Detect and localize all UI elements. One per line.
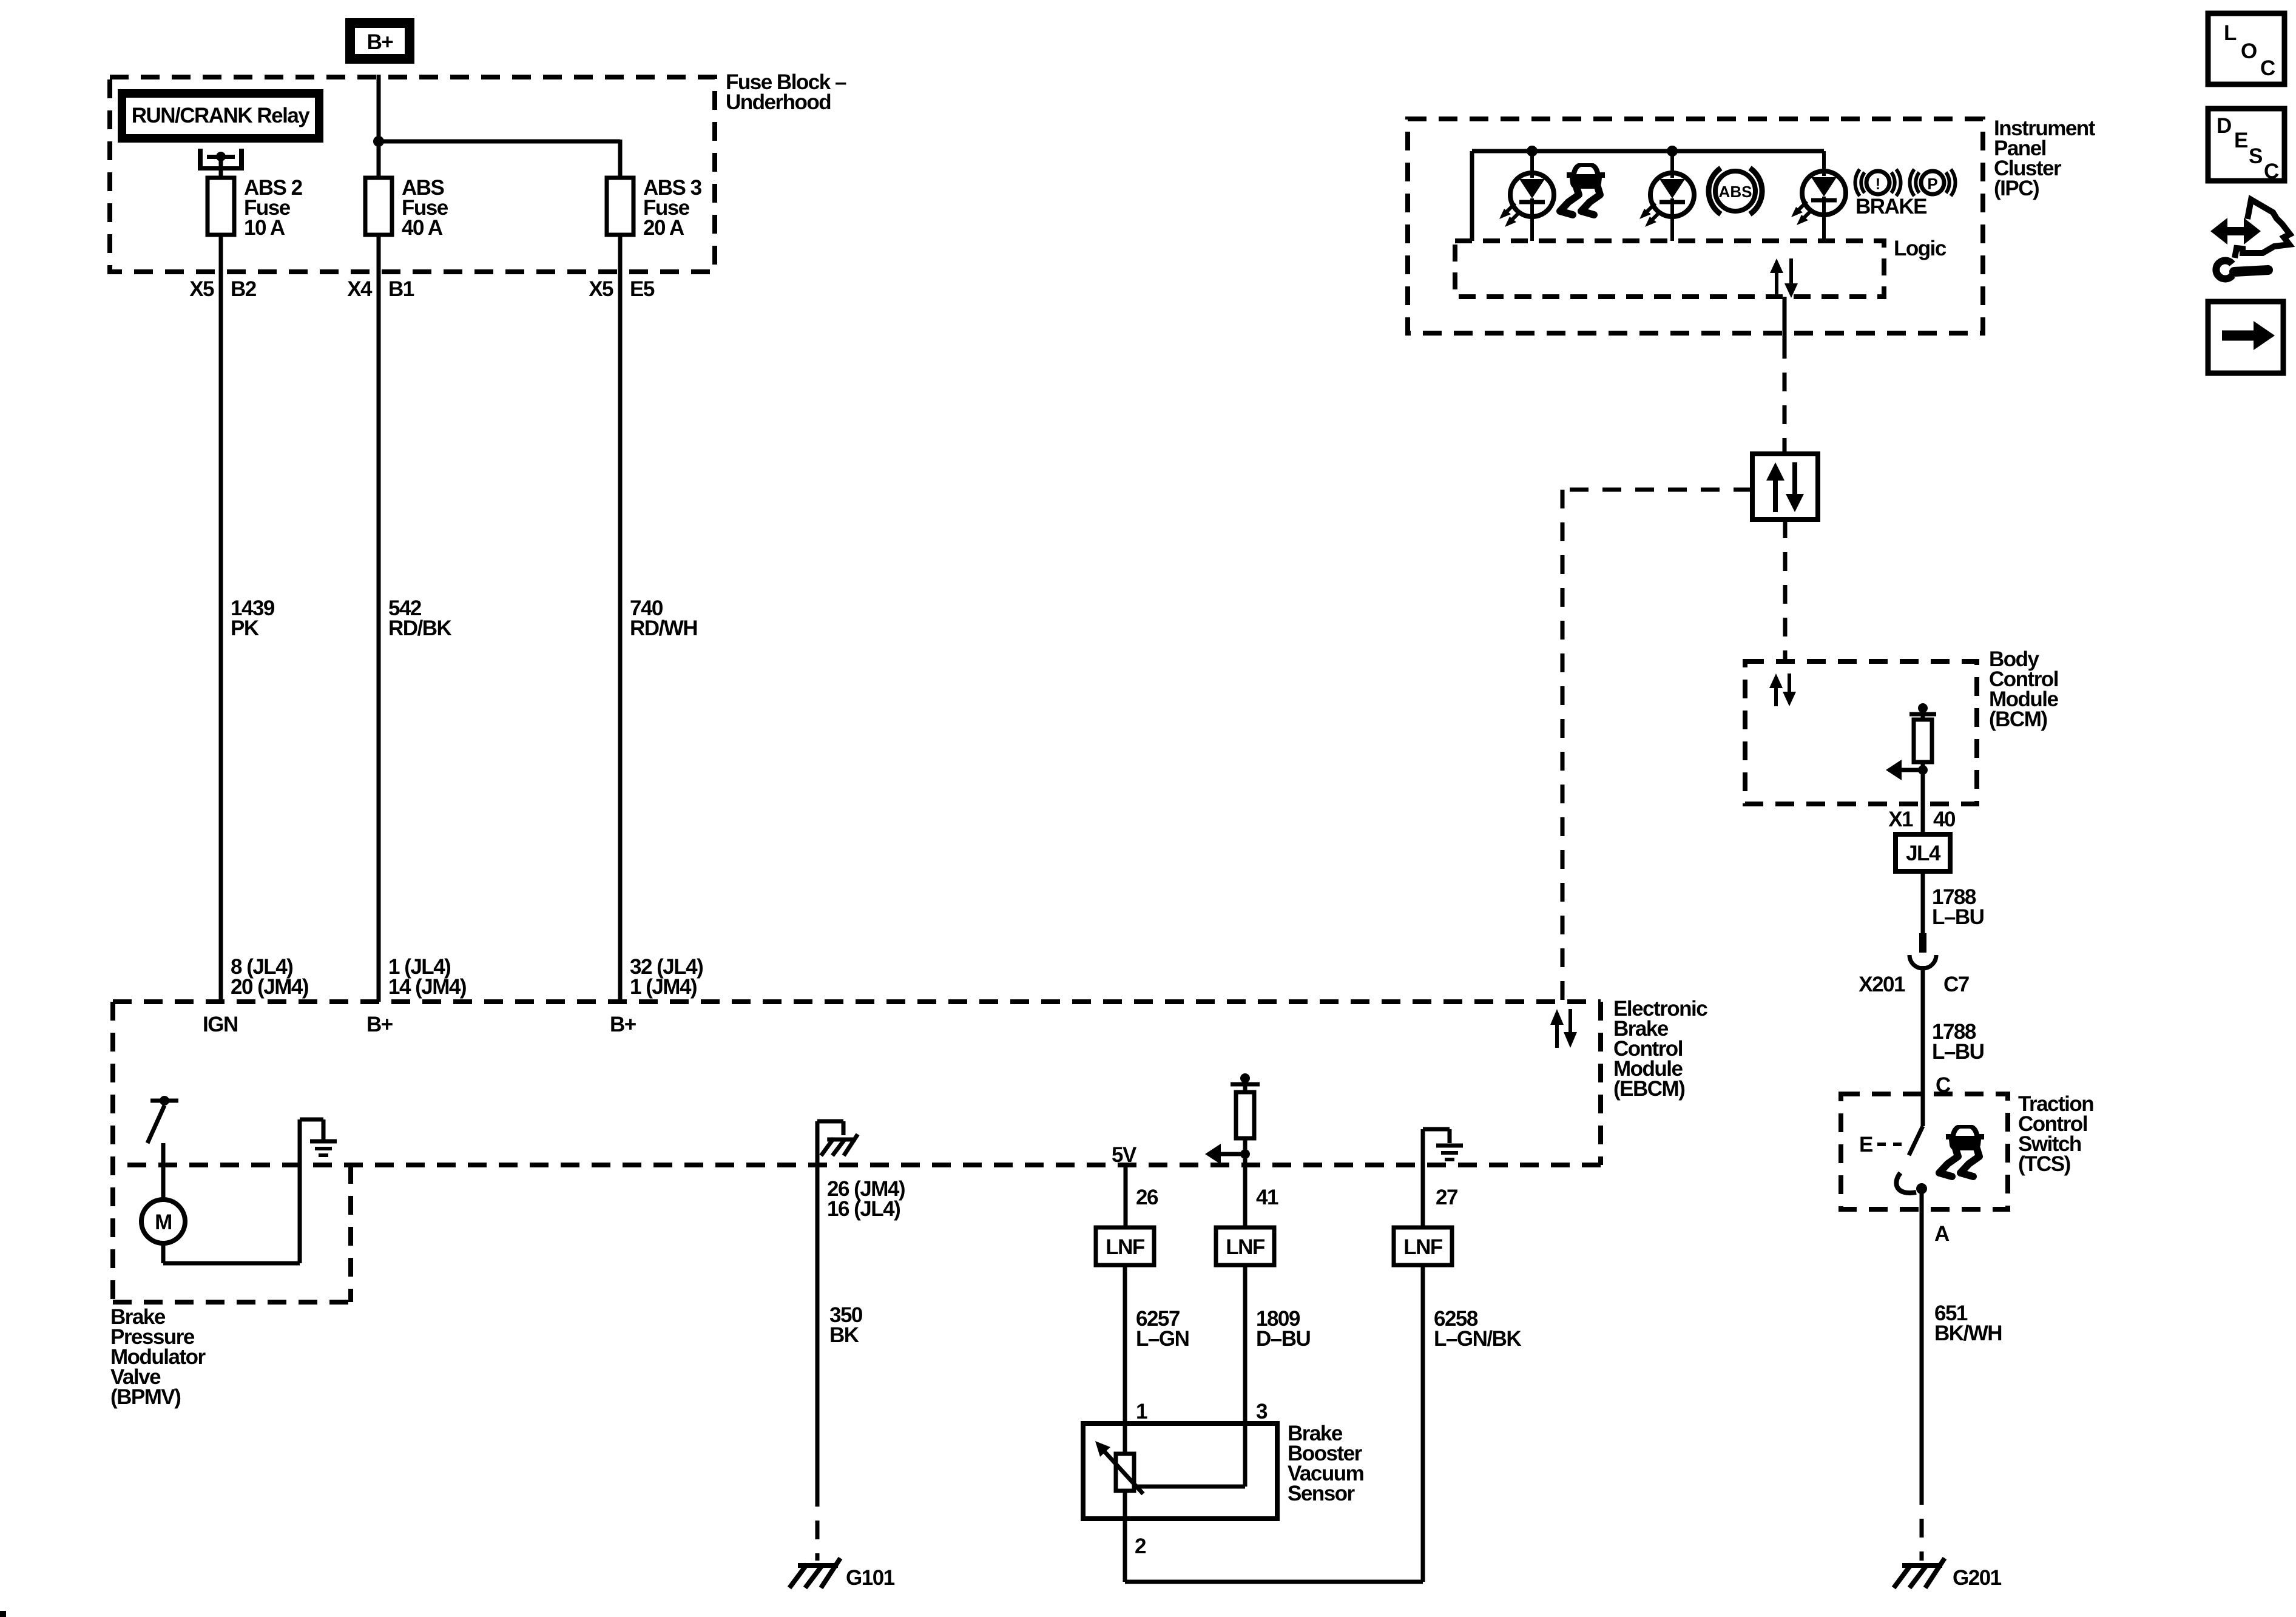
svg-text:41: 41 <box>1256 1186 1278 1209</box>
brake warning (!) icon <box>1855 169 1900 196</box>
wire label 1439 PK <box>231 596 275 640</box>
svg-text:M: M <box>155 1210 172 1234</box>
wire 1439 PK <box>219 235 223 1002</box>
svg-text:LNF: LNF <box>1226 1235 1265 1259</box>
ground G101 <box>789 1558 895 1590</box>
wire resistor to JL4 <box>1921 762 1925 834</box>
svg-text:1 (JM4): 1 (JM4) <box>630 975 697 999</box>
ABS 2 fuse label <box>244 176 303 240</box>
Traction Control Switch dashed box <box>1841 1094 2008 1209</box>
svg-text:L–GN/BK: L–GN/BK <box>1434 1327 1521 1351</box>
wire motor to ground loop <box>163 1119 323 1263</box>
junction node lamp 1 <box>1527 146 1538 157</box>
pull-up resistor in EBCM <box>1236 1092 1254 1138</box>
serial data symbol box <box>1752 454 1818 519</box>
svg-text:BRAKE: BRAKE <box>1855 195 1926 218</box>
svg-text:L–BU: L–BU <box>1932 1040 1984 1064</box>
svg-text:(BCM): (BCM) <box>1989 707 2047 731</box>
svg-text:B+: B+ <box>610 1013 636 1036</box>
svg-text:S: S <box>2249 144 2262 168</box>
wire 1809 D-BU <box>1243 1265 1248 1487</box>
RUN/CRANK Relay box <box>118 89 323 143</box>
svg-text:ABS: ABS <box>1719 183 1752 201</box>
svg-text:JL4: JL4 <box>1906 842 1941 865</box>
serial wire IPC to data link <box>1783 297 1787 454</box>
svg-text:D: D <box>2217 114 2231 138</box>
svg-text:2: 2 <box>1135 1534 1146 1558</box>
terminal B+ (542) <box>366 1013 393 1036</box>
pin label 8 (JL4) 20 (JM4) <box>231 955 308 999</box>
junction node on B+ feed <box>373 136 384 147</box>
EBCM internal ground (motor) <box>310 1141 337 1155</box>
BCM pull-up resistor <box>1914 720 1932 762</box>
Brake Booster Vacuum Sensor box <box>1083 1423 1277 1519</box>
TC indicator LED <box>1499 151 1554 241</box>
pin label 41 <box>1256 1186 1278 1209</box>
svg-text:(IPC): (IPC) <box>1994 177 2039 200</box>
pin label 3 <box>1256 1400 1268 1423</box>
5V supply symbol in EBCM <box>1231 1073 1260 1092</box>
wire 6257 upper <box>1124 1165 1128 1227</box>
junction node lamp 2 <box>1667 146 1678 157</box>
wire 1788 L-BU upper <box>1921 871 1925 934</box>
svg-text:40: 40 <box>1933 808 1956 831</box>
BPMV label <box>110 1305 206 1409</box>
B+ power terminal <box>345 18 414 64</box>
svg-text:B1: B1 <box>388 277 414 301</box>
fuse ABS 40A <box>365 178 392 235</box>
wire label 350 BK <box>829 1303 863 1347</box>
EBCM internal ground (sensor return) <box>1423 1129 1463 1165</box>
TCS momentary contact <box>1896 1173 1927 1194</box>
EBCM dashed box <box>113 1002 1601 1302</box>
pin label A <box>1934 1222 1950 1246</box>
pin label X5 E5 <box>589 277 655 301</box>
svg-text:(TCS): (TCS) <box>2018 1152 2070 1176</box>
wire label 6257 L-GN <box>1136 1307 1189 1351</box>
svg-text:20 (JM4): 20 (JM4) <box>231 975 308 999</box>
in-line harness connector JL4 <box>1896 834 1950 871</box>
Logic dashed box <box>1455 241 1884 297</box>
svg-text:10 A: 10 A <box>244 216 285 240</box>
svg-text:L–BU: L–BU <box>1932 905 1984 929</box>
ABS fuse label <box>402 176 448 240</box>
wire label 1809 D-BU <box>1256 1307 1311 1351</box>
BCM serial arrows <box>1769 673 1796 706</box>
potentiometer wiper arrow <box>1095 1441 1143 1494</box>
EBCM serial data arrows <box>1550 1009 1577 1048</box>
svg-text:1: 1 <box>1136 1400 1147 1423</box>
svg-text:RD/WH: RD/WH <box>630 616 697 640</box>
wire 542 RD/BK <box>377 235 381 1002</box>
svg-text:G101: G101 <box>846 1566 895 1590</box>
terminal IGN <box>203 1013 238 1036</box>
dashed serial wire to BCM <box>1783 519 1788 661</box>
connector label X201 C7 <box>1859 973 1969 996</box>
Fuse Block label <box>726 70 846 114</box>
BRAKE text <box>1855 195 1926 218</box>
pin label 32 (JL4) 1 (JM4) <box>630 955 703 999</box>
pump motor switch in EBCM <box>147 1096 178 1143</box>
svg-text:LNF: LNF <box>1403 1235 1443 1259</box>
svg-text:RUN/CRANK Relay: RUN/CRANK Relay <box>132 104 311 127</box>
svg-text:C7: C7 <box>1943 973 1969 996</box>
pin label 27 <box>1436 1186 1457 1209</box>
svg-text:X1: X1 <box>1888 808 1913 831</box>
splice pack LNF (1809) <box>1216 1227 1274 1265</box>
wire 651 solid <box>1920 1189 1924 1486</box>
svg-text:26: 26 <box>1136 1186 1158 1209</box>
svg-text:40 A: 40 A <box>402 216 443 240</box>
chassis ground in EBCM <box>821 1134 857 1155</box>
relay contact clip above ABS 2 fuse <box>198 149 244 178</box>
svg-text:3: 3 <box>1256 1400 1268 1423</box>
logic serial arrows <box>1770 258 1798 298</box>
ABS 3 fuse label <box>643 176 702 240</box>
park brake (P) icon <box>1909 169 1955 196</box>
svg-text:LNF: LNF <box>1106 1235 1145 1259</box>
TCS skid car icon <box>1939 1125 1984 1176</box>
Body Control Module dashed box <box>1745 661 1977 804</box>
svg-text:L–GN: L–GN <box>1136 1327 1189 1351</box>
svg-text:E: E <box>1859 1133 1872 1156</box>
svg-text:E: E <box>2234 129 2247 152</box>
wire label 6258 L-GN/BK <box>1434 1307 1521 1351</box>
pin label 1 (JL4) 14 (JM4) <box>388 955 466 999</box>
svg-text:E5: E5 <box>630 277 655 301</box>
svg-text:P: P <box>1927 175 1937 193</box>
splice pack LNF (6258) <box>1394 1227 1452 1265</box>
svg-text:D–BU: D–BU <box>1256 1327 1311 1351</box>
ground wire 350 hook <box>817 1121 843 1488</box>
wire resistor to junction <box>1243 1138 1248 1165</box>
EBCM label <box>1613 997 1707 1101</box>
wire B+ to junction and middle fuse <box>377 75 381 178</box>
splice pack LNF (6257) <box>1096 1227 1154 1265</box>
svg-text:A: A <box>1934 1222 1950 1246</box>
pin label 1 <box>1136 1400 1147 1423</box>
IPC label <box>1994 116 2096 200</box>
wire 1788 L-BU lower <box>1921 966 1925 1126</box>
wire label 740 RD/WH <box>630 596 697 640</box>
svg-text:B+: B+ <box>367 30 394 54</box>
svg-text:Underhood: Underhood <box>726 90 831 114</box>
TCS E terminal <box>1859 1133 1905 1156</box>
svg-text:(BPMV): (BPMV) <box>110 1385 180 1409</box>
wire label 651 BK/WH <box>1934 1301 2002 1345</box>
wire label 542 RD/BK <box>388 596 452 640</box>
TCS switch blade <box>1909 1126 1923 1155</box>
wire 1809 upper <box>1243 1165 1248 1227</box>
svg-text:27: 27 <box>1436 1186 1457 1209</box>
page corner mark <box>0 1611 6 1617</box>
terminal B+ (740) <box>610 1013 636 1036</box>
svg-text:X5: X5 <box>189 277 214 301</box>
fuse ABS 2 10A <box>208 178 234 235</box>
ABS indicator LED <box>1639 151 1694 241</box>
svg-text:B+: B+ <box>366 1013 393 1036</box>
pump motor M <box>141 1200 185 1243</box>
BCM signal arrow <box>1886 760 1923 780</box>
pin label X5 B2 <box>189 277 257 301</box>
BCM label <box>1989 647 2059 731</box>
svg-text:Logic: Logic <box>1894 237 1947 260</box>
in-line connector X201 C7 <box>1909 933 1936 968</box>
hand with wrench icon <box>2210 200 2290 279</box>
forward reference arrow box <box>2208 302 2283 373</box>
wire 740 RD/WH <box>618 235 623 1002</box>
Logic label <box>1894 237 1947 260</box>
wire label 1788 L-BU (lower) <box>1932 1020 1984 1064</box>
TCS label <box>2018 1092 2093 1176</box>
BPMV dashed box <box>113 1165 351 1302</box>
pin label X1 40 <box>1888 808 1956 831</box>
pin label 2 <box>1135 1534 1146 1558</box>
dashed serial branch to EBCM <box>1562 490 1752 1002</box>
svg-text:C: C <box>2260 56 2275 80</box>
pin label 26 <box>1136 1186 1158 1209</box>
junction node in BCM <box>1918 765 1928 775</box>
BRAKE indicator LED <box>1791 151 1846 241</box>
pin label 26 (JM4) 16 (JL4) <box>827 1177 905 1221</box>
LOC reference box <box>2208 13 2284 84</box>
svg-text:X4: X4 <box>347 277 373 301</box>
svg-text:BK: BK <box>829 1323 859 1347</box>
svg-text:14 (JM4): 14 (JM4) <box>388 975 466 999</box>
Instrument Panel Cluster dashed box <box>1408 119 1983 333</box>
svg-text:RD/BK: RD/BK <box>388 616 452 640</box>
wire switch to motor <box>161 1143 166 1200</box>
fuse ABS 3 20A <box>607 178 633 235</box>
wiper to pin 3 <box>1134 1485 1245 1489</box>
svg-text:BK/WH: BK/WH <box>1934 1322 2002 1345</box>
svg-text:16 (JL4): 16 (JL4) <box>827 1197 900 1221</box>
pin label X4 B1 <box>347 277 414 301</box>
IPC feed bus <box>1472 151 1824 241</box>
Fuse Block - Underhood dashed box <box>110 77 715 272</box>
DESC reference box <box>2208 109 2284 183</box>
svg-text:5V: 5V <box>1112 1143 1137 1167</box>
TC skid car icon <box>1560 163 1605 215</box>
wire 6258 upper <box>1421 1165 1425 1227</box>
wire 6257 L-GN <box>1123 1265 1127 1454</box>
svg-text:Sensor: Sensor <box>1288 1482 1356 1505</box>
ground G201 <box>1894 1558 2002 1590</box>
pin label C <box>1936 1073 1951 1097</box>
junction node 41 <box>1240 1149 1250 1159</box>
svg-text:G201: G201 <box>1953 1566 2002 1590</box>
sensor label <box>1288 1422 1363 1505</box>
svg-text:20 A: 20 A <box>643 216 684 240</box>
svg-text:C: C <box>2264 160 2279 183</box>
wire junction to ABS 3 fuse <box>379 140 620 178</box>
BCM voltage supply symbol <box>1909 703 1936 720</box>
wire 6258 L-GN/BK <box>1125 1265 1423 1582</box>
svg-text:X201: X201 <box>1859 973 1905 996</box>
svg-text:(EBCM): (EBCM) <box>1613 1077 1684 1101</box>
svg-text:PK: PK <box>231 616 259 640</box>
svg-text:L: L <box>2224 21 2237 45</box>
svg-text:B2: B2 <box>231 277 257 301</box>
terminal 5V <box>1112 1143 1137 1167</box>
svg-text:O: O <box>2241 39 2257 63</box>
signal arrow at 41 <box>1205 1144 1245 1164</box>
svg-text:IGN: IGN <box>203 1013 238 1036</box>
svg-text:X5: X5 <box>589 277 613 301</box>
potentiometer element <box>1116 1454 1134 1491</box>
wire label 1788 L-BU (upper) <box>1932 885 1984 929</box>
dashed wire to G201 <box>1920 1486 1924 1561</box>
dashed wire to G101 <box>815 1488 820 1561</box>
svg-text:!: ! <box>1876 175 1881 193</box>
ABS warning icon <box>1709 168 1762 214</box>
